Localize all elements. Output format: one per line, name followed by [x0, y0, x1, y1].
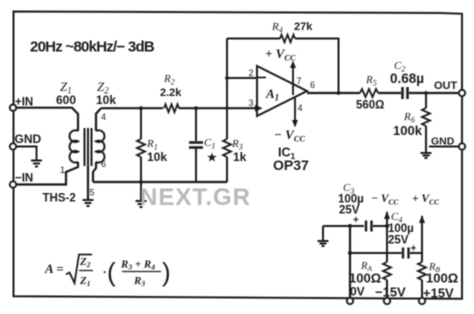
label R3 1k — [231, 138, 247, 164]
svg-text:1: 1 — [60, 165, 65, 175]
svg-text:−15V: −15V — [375, 285, 406, 300]
svg-text:OP37: OP37 — [273, 157, 309, 173]
ground (input GND) — [31, 161, 42, 167]
terminal +IN — [10, 97, 33, 111]
svg-text:3: 3 — [249, 98, 254, 108]
terminal -IN — [10, 173, 33, 188]
wire: feedback top — [227, 38, 280, 40]
label IC1 OP37 — [273, 146, 309, 174]
wire: -IN to transformer primary bottom — [16, 162, 78, 185]
ground (bottom rail) — [136, 201, 147, 207]
resistor R2 2.2k — [164, 104, 179, 112]
svg-text:560Ω: 560Ω — [356, 100, 384, 112]
resistor R1 10k — [137, 108, 145, 182]
transformer T1 THS-2 primary winding — [70, 130, 78, 162]
label R6 100k — [393, 111, 423, 138]
node: feedback/output junction — [337, 91, 341, 95]
svg-text:100Ω: 100Ω — [349, 271, 381, 286]
label R1 10k — [146, 138, 167, 164]
pin 4 -Vcc arrow — [292, 98, 303, 128]
svg-text:A =: A = — [44, 261, 64, 276]
wire: +IN to transformer primary — [16, 108, 78, 131]
svg-text:GND: GND — [431, 136, 455, 148]
wire: R2 to op-amp pin3 — [179, 107, 256, 109]
svg-text:25V: 25V — [339, 205, 360, 217]
node: 0V / C3 junction — [348, 224, 352, 228]
label Z2 10k — [96, 79, 116, 107]
label C2 0.68u — [390, 60, 424, 86]
terminal OUT — [434, 80, 465, 96]
svg-text:2: 2 — [249, 68, 254, 78]
svg-text:1k: 1k — [233, 150, 247, 164]
wire: GND terminal stub — [429, 146, 459, 148]
terminal GND (input) — [10, 132, 42, 150]
svg-text:6: 6 — [101, 159, 106, 169]
transformer core — [85, 128, 92, 166]
resistor R3 1k — [223, 110, 231, 182]
svg-text:+: + — [353, 215, 359, 226]
terminal -15V — [375, 285, 406, 305]
resistor R5 560 — [360, 89, 378, 97]
svg-text:NEXT.GR: NEXT.GR — [140, 184, 251, 211]
wire: secondary pin4 up to main line — [96, 108, 101, 131]
wire: pin 2 to inverting node — [227, 77, 257, 79]
svg-text:10k: 10k — [96, 93, 116, 107]
node: inverting junction — [225, 76, 229, 80]
wire: R5 to C2 — [378, 92, 401, 94]
wire: secondary pin6 down to bottom rail — [93, 162, 96, 182]
node: rail/ground junction — [139, 180, 143, 184]
resistor R4 27k — [280, 35, 295, 43]
svg-text:100k: 100k — [393, 123, 423, 138]
node: main/C1 junction — [194, 106, 198, 110]
wire: ground branch (PSU) — [322, 226, 324, 240]
capacitor C4 100u 25V — [403, 244, 417, 259]
wire: -Vcc vertical with resistor Ra — [383, 212, 391, 298]
label Z1 600 — [56, 79, 76, 107]
svg-text:(: ( — [107, 257, 116, 287]
label R2 2.2k — [160, 73, 182, 99]
svg-text:4: 4 — [101, 112, 106, 122]
svg-text:27k: 27k — [294, 21, 313, 33]
label C3 100u 25V — [338, 182, 364, 217]
svg-text:20Hz ~80kHz/− 3dB: 20Hz ~80kHz/− 3dB — [30, 39, 155, 56]
wire: C3 rail (y=226) — [323, 225, 364, 227]
transformer center tap pin5 to ground — [87, 166, 89, 200]
wire: main signal line — [101, 107, 163, 109]
wire: R4 to output — [295, 39, 339, 94]
-Vcc rail arrow — [384, 211, 390, 219]
svg-text:6: 6 — [310, 80, 315, 90]
wire: C2 to OUT — [409, 92, 459, 94]
svg-text:): ) — [162, 257, 171, 287]
+Vcc rail arrow — [419, 215, 425, 223]
svg-text:100µ: 100µ — [388, 223, 414, 235]
label C1 with star — [204, 137, 217, 164]
terminal GND (output) — [431, 136, 465, 150]
label C4 100u 25V — [388, 211, 414, 247]
svg-text:600: 600 — [56, 93, 76, 107]
resistor R6 100k — [422, 93, 430, 152]
wire: inverting node vertical — [226, 39, 228, 111]
svg-text:GND: GND — [15, 132, 42, 146]
node: main/R1 junction — [139, 106, 143, 110]
resistor Rb 100ohm — [418, 262, 426, 280]
pin 3 input arrow — [255, 105, 263, 112]
svg-text:0.68µ: 0.68µ — [390, 71, 424, 86]
svg-text:100Ω: 100Ω — [426, 271, 458, 286]
svg-text:5: 5 — [90, 188, 95, 198]
terminal 0V — [347, 285, 365, 305]
capacitor C1 — [189, 108, 203, 182]
svg-text:0V: 0V — [350, 285, 365, 299]
svg-text:+15V: +15V — [423, 286, 454, 301]
wire: op-amp output — [307, 92, 360, 94]
label Rb 100ohm — [426, 262, 458, 286]
formula: gain equation — [44, 255, 171, 289]
ground (PSU common) — [318, 241, 329, 246]
svg-text:+: + — [411, 244, 417, 255]
transformer secondary winding — [96, 130, 104, 162]
op-amp A1 — [257, 66, 307, 116]
capacitor C3 100u 25V — [353, 215, 372, 232]
svg-text:★: ★ — [207, 152, 217, 164]
label R5 560ohm — [356, 74, 384, 112]
svg-text:2.2k: 2.2k — [160, 87, 182, 99]
resistor Ra 100ohm — [383, 262, 391, 280]
wire: 0V vertical — [349, 226, 351, 298]
ground (transformer tap) — [83, 200, 94, 206]
svg-text:25V: 25V — [388, 235, 409, 247]
svg-text:OUT: OUT — [434, 80, 458, 92]
svg-text:7: 7 — [297, 76, 302, 86]
svg-text:10k: 10k — [147, 150, 167, 164]
svg-text:THS-2: THS-2 — [43, 193, 76, 205]
wire: rail ground stub — [140, 182, 142, 201]
svg-text:−IN: −IN — [15, 173, 33, 185]
node: OUT/R6 junction — [424, 91, 428, 95]
node: 0V / C4 junction — [348, 251, 352, 255]
wire: +Vcc vertical with resistor Rb — [418, 216, 426, 298]
terminal +15V — [419, 286, 454, 305]
svg-text:R3 + R4: R3 + R4 — [120, 259, 155, 272]
wire: GND terminal to ground — [16, 147, 37, 160]
label Ra 100ohm — [349, 261, 381, 286]
svg-text:4: 4 — [298, 103, 303, 113]
node: C3 / -Vcc junction — [385, 224, 389, 228]
pin 2 input bar — [258, 77, 266, 79]
wire: bottom rail — [93, 181, 227, 183]
capacitor C2 0.68u — [403, 87, 408, 99]
pin 7 +Vcc arrow — [290, 61, 302, 96]
wire: C4 rail (y=253) — [350, 252, 402, 254]
ground (R6) — [421, 153, 432, 158]
label R4 27k — [271, 21, 313, 35]
